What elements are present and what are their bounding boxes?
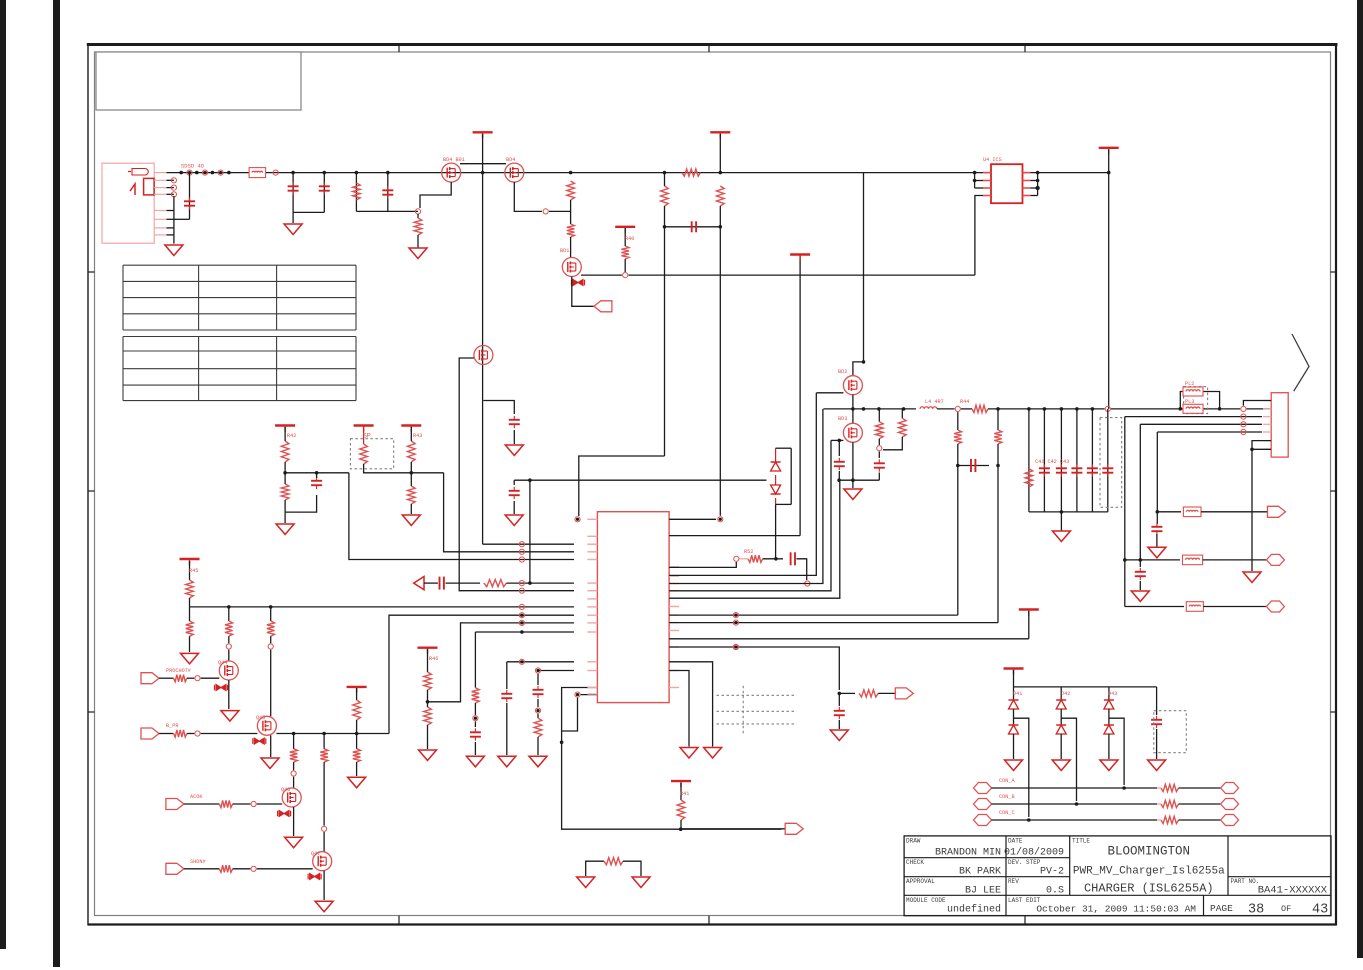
svg-text:CON_C: CON_C [999,810,1015,816]
svg-text:PL3: PL3 [1185,399,1194,405]
svg-text:R44: R44 [960,399,969,405]
svg-text:PWR_MV_Charger_Isl6255a: PWR_MV_Charger_Isl6255a [1073,866,1225,878]
svg-text:D43: D43 [1108,691,1117,697]
svg-text:CHECK: CHECK [906,859,924,866]
svg-text:BD3: BD3 [838,416,847,422]
svg-text:CON_A: CON_A [999,778,1015,784]
svg-text:U4 ICS: U4 ICS [983,157,1002,163]
svg-text:REV: REV [1008,878,1019,885]
svg-text:BD1: BD1 [560,248,569,254]
svg-text:MODULE CODE: MODULE CODE [906,897,946,904]
svg-text:BD4: BD4 [506,157,515,163]
svg-text:Q45: Q45 [256,715,265,721]
svg-text:CHARGER (ISL6255A): CHARGER (ISL6255A) [1084,882,1214,896]
svg-text:OF: OF [1281,904,1291,914]
svg-text:R41: R41 [680,791,689,797]
svg-text:R40: R40 [625,236,634,242]
svg-text:D42: D42 [1061,691,1070,697]
svg-text:Q46: Q46 [281,787,290,793]
svg-text:D41: D41 [1013,691,1022,697]
svg-text:DATE: DATE [1008,838,1023,845]
svg-text:BD4 B01: BD4 B01 [443,157,465,163]
svg-text:BA41-XXXXXX: BA41-XXXXXX [1258,885,1328,897]
svg-text:PV-2: PV-2 [1040,867,1064,878]
svg-text:BD2: BD2 [838,369,847,375]
svg-text:R42: R42 [287,433,296,439]
svg-text:SDSD 4D: SDSD 4D [181,163,205,170]
svg-text:B_PR: B_PR [166,723,178,729]
svg-text:BRANDON MIN: BRANDON MIN [935,848,1001,859]
svg-text:BK PARK: BK PARK [959,867,1001,878]
svg-text:CON_B: CON_B [999,794,1015,800]
svg-text:Q47: Q47 [311,851,320,857]
svg-text:43: 43 [1312,903,1328,918]
svg-text:October 31, 2009 11:50:03 AM: October 31, 2009 11:50:03 AM [1036,904,1196,915]
svg-text:undefined: undefined [947,904,1001,916]
svg-text:01/08/2009: 01/08/2009 [1004,847,1064,859]
svg-text:R45: R45 [189,568,198,574]
svg-text:APPROVAL: APPROVAL [906,878,935,885]
svg-text:R43: R43 [413,433,422,439]
svg-text:R52: R52 [744,549,753,555]
svg-text:TITLE: TITLE [1072,838,1090,845]
svg-text:ACOK: ACOK [190,794,203,800]
svg-text:38: 38 [1248,903,1264,918]
svg-text:PART NO.: PART NO. [1231,878,1260,885]
svg-text:R46: R46 [429,656,438,662]
svg-text:DEV. STEP: DEV. STEP [1008,859,1041,866]
svg-text:PAGE: PAGE [1210,903,1233,914]
svg-text:PL2: PL2 [1185,381,1194,387]
svg-text:0.S: 0.S [1046,886,1064,897]
svg-text:BJ LEE: BJ LEE [965,886,1001,897]
svg-text:BLOOMINGTON: BLOOMINGTON [1108,845,1191,859]
svg-text:C41 C42 C43: C41 C42 C43 [1035,459,1069,465]
svg-text:L4 4R7: L4 4R7 [925,399,944,405]
svg-text:SHDN#: SHDN# [190,859,206,865]
svg-text:Q44: Q44 [218,660,227,666]
svg-text:DRAW: DRAW [906,838,921,845]
svg-text:PROCHOT#: PROCHOT# [166,668,191,674]
svg-text:SP: SP [363,433,371,440]
